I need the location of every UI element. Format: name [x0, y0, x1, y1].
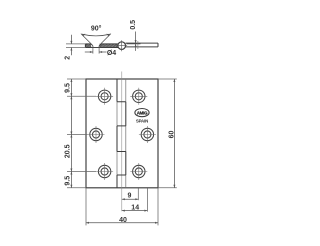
hole top-left — [96, 88, 113, 105]
top view: hatching left leaf — [85, 44, 118, 48]
dim left stack: extension lines — [67, 79, 96, 188]
dim 0.5: arrowheads — [135, 40, 137, 43]
dim diameter 4: extension lines — [93, 48, 99, 54]
svg-text:SPAIN: SPAIN — [136, 118, 148, 123]
dim 90 degrees: extension lines — [81, 34, 111, 44]
svg-text:AMIG: AMIG — [137, 110, 148, 115]
dim 9 bottom: arrowheads — [122, 198, 139, 200]
hole bottom-left — [96, 163, 113, 180]
dim 40 bottom: extension lines — [86, 188, 158, 225]
dim 60: extension lines — [158, 79, 177, 188]
svg-text:60: 60 — [169, 131, 176, 139]
dim 40 bottom: arrowheads — [86, 222, 158, 224]
dim left stack: arrowheads — [70, 79, 72, 188]
dim 0.5: reference tick — [137, 41, 139, 49]
top view: countersink V notch — [91, 44, 101, 48]
dim 14 bottom: dimension line — [122, 210, 148, 212]
svg-text:20.5: 20.5 — [65, 144, 72, 158]
dim 90 degrees: arrowheads — [82, 34, 85, 37]
top view: right leaf bar — [126, 43, 159, 47]
dim 14 bottom: extension line — [146, 188, 148, 212]
dim diameter 4: dimension lines — [85, 51, 107, 53]
svg-text:2: 2 — [65, 56, 72, 60]
dim 14 bottom: arrowheads — [122, 210, 148, 212]
svg-text:14: 14 — [131, 205, 139, 212]
dim 60: arrowheads — [173, 79, 175, 188]
dim 2: extension lines — [66, 44, 85, 48]
dim diameter 4: arrowheads — [90, 51, 93, 53]
svg-text:Ø4: Ø4 — [107, 50, 116, 57]
svg-text:9.5: 9.5 — [64, 176, 71, 186]
svg-text:9.5: 9.5 — [64, 83, 71, 93]
hole middle-right — [139, 126, 156, 143]
hole bottom-right — [130, 163, 147, 180]
hole top-right — [130, 88, 147, 105]
dim 90 degrees: arc — [82, 34, 110, 36]
dim 2: dimension lines — [70, 35, 72, 56]
dim 2: arrowheads — [70, 41, 72, 44]
svg-text:40: 40 — [119, 217, 127, 224]
dim 9 bottom: dimension line — [122, 198, 139, 200]
svg-text:9: 9 — [127, 193, 131, 200]
front view: knuckle segment rungs — [117, 102, 126, 175]
dim 60: dimension line — [173, 79, 175, 188]
hole middle-left — [88, 126, 105, 143]
svg-text:90°: 90° — [91, 25, 102, 33]
dim 9 bottom: extension line — [137, 188, 139, 200]
svg-text:0.5: 0.5 — [130, 20, 137, 30]
dim left stack: dimension line — [70, 79, 72, 188]
front view: hinge outline rectangle — [86, 79, 158, 188]
front view: center axis line — [121, 72, 123, 212]
logo AMIG oval — [135, 109, 149, 117]
top view: pin centerlines — [116, 40, 127, 51]
front view: knuckle joint lines (alternating leaf cut lines) — [117, 79, 126, 188]
dim 0.5: dimension lines — [127, 32, 141, 51]
top view: knuckle pin circle — [118, 42, 126, 50]
dim 40 bottom: dimension line — [86, 222, 158, 224]
top view: left leaf bar (sectioned) — [85, 44, 118, 48]
